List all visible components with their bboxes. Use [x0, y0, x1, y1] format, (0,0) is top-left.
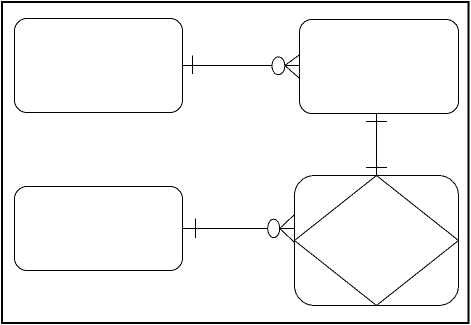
crow's foot (many) at E2 side — [285, 55, 300, 79]
wire E1-E2 connector — [183, 65, 273, 67]
crow's foot (many) at E4 side — [280, 215, 295, 243]
entity E3 (bottom-left rounded box) — [15, 187, 183, 271]
relationship diamond inside E4 — [295, 176, 459, 306]
tick (one) lower on E2-E4 wire — [366, 167, 387, 169]
zero/optional circle on E3-E4 wire — [268, 219, 280, 237]
entity E4 (bottom-right large rounded box) — [295, 176, 459, 306]
tick (one) upper on E2-E4 wire — [366, 121, 387, 123]
cardinality tick (one) on E1-E2 wire — [192, 56, 194, 75]
cardinality tick (one) on E3-E4 wire — [195, 219, 197, 238]
zero/optional circle on E1-E2 wire — [272, 57, 285, 75]
wire E2-E4 vertical connector — [376, 114, 378, 176]
entity E2 (top-right rounded box) — [300, 20, 459, 114]
wire E3-E4 connector — [183, 228, 268, 230]
entity E1 (top-left rounded box) — [15, 19, 183, 113]
